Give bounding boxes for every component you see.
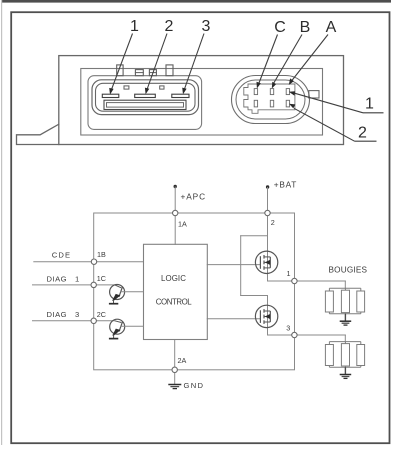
leader to label 2 — [294, 108, 355, 141]
plug resistor R2a — [325, 345, 333, 366]
connector inner wall — [96, 83, 196, 111]
connector shroud — [88, 76, 202, 130]
node 1 — [292, 278, 297, 283]
node 2C — [91, 318, 96, 323]
group2 earth ground — [340, 374, 352, 376]
wire M1 source to node 1 — [268, 280, 295, 282]
MOSFET M1 — [255, 251, 277, 273]
wire node 3 to glow plug group 2 — [294, 334, 345, 336]
wire bypass to M2 drain — [241, 295, 268, 297]
node 2A — [172, 367, 177, 372]
top small tab A — [135, 70, 143, 76]
MOSFET M2 — [255, 305, 277, 327]
svg-text:1: 1 — [365, 96, 374, 113]
svg-text:3: 3 — [202, 18, 211, 35]
transistor Q2 (DIAG 3) — [109, 319, 144, 338]
+BAT supply dot — [266, 185, 269, 188]
wire DIAG3 input through node 2C to transistor Q2 — [33, 320, 115, 322]
schematic text labels — [47, 180, 368, 390]
+APC supply dot — [174, 185, 177, 188]
pin B (top-middle) — [270, 89, 273, 95]
top tall tab left — [117, 65, 123, 76]
wire +BAT to node 2 — [267, 188, 269, 214]
M2 drain stub — [264, 310, 270, 312]
node 1B — [91, 259, 96, 264]
glow plug group 2 (BOUGIES) — [325, 342, 364, 379]
plug resistor R1b — [341, 290, 349, 312]
svg-text:CDE: CDE — [52, 250, 71, 259]
arrowhead 3 — [182, 88, 186, 95]
wire bypass vertical — [240, 236, 242, 296]
svg-text:LOGIC: LOGIC — [161, 274, 186, 283]
M1 drain stub — [264, 256, 270, 258]
group1 ground drop — [344, 314, 346, 321]
leader 3 — [184, 34, 204, 90]
terminal slot 3 — [172, 94, 189, 97]
M2 source stub — [264, 321, 270, 323]
svg-text:B: B — [300, 19, 311, 36]
module left mounting flange — [17, 124, 59, 144]
M1 internal rail — [269, 257, 271, 268]
svg-text:GND: GND — [184, 381, 205, 390]
node 3 — [292, 332, 297, 337]
module body outline — [59, 56, 344, 145]
svg-text:C: C — [274, 19, 286, 36]
svg-text:1: 1 — [75, 275, 79, 284]
svg-text:1A: 1A — [178, 220, 187, 229]
group1 stubs top — [328, 288, 330, 291]
arrowhead A — [289, 78, 294, 85]
svg-text:BOUGIES: BOUGIES — [329, 266, 368, 275]
top dark strip (scan artifact) — [2, 0, 391, 3]
svg-text:2: 2 — [358, 124, 367, 141]
M2 internal rail — [269, 311, 271, 322]
arrowhead 2 — [145, 88, 149, 95]
label 1 underline — [363, 112, 384, 114]
group2 stubs bottom — [328, 366, 330, 368]
M1 channel dashes — [263, 255, 265, 259]
wire DIAG1 input through node 1C to transistor Q1 — [33, 284, 115, 286]
svg-text:DIAG: DIAG — [47, 275, 68, 284]
wire gate of MOSFET M1 — [207, 264, 260, 266]
transistor Q1 (DIAG 1) — [109, 285, 144, 304]
plug resistor R1c — [357, 291, 365, 312]
arrowhead pin right-top — [289, 91, 295, 95]
inner bump left — [124, 86, 129, 89]
svg-text:+BAT: +BAT — [274, 180, 297, 190]
arrowhead B — [272, 82, 276, 89]
wire M2 source to node 3 — [268, 334, 295, 336]
logic control block U1 — [144, 244, 208, 339]
svg-text:+APC: +APC — [181, 192, 207, 202]
left page edge line — [1, 0, 2, 445]
arrowhead pin right-bottom — [289, 104, 295, 109]
plug resistor R2b — [341, 344, 349, 366]
pin bottom-middle — [270, 100, 273, 107]
arrowhead 1 — [109, 88, 113, 95]
top small tab A divider — [135, 72, 143, 74]
svg-text:CONTROL: CONTROL — [156, 298, 192, 307]
leader B — [274, 35, 303, 84]
group1 stubs bottom — [328, 312, 330, 314]
svg-text:2C: 2C — [97, 310, 106, 319]
group2 stubs top — [328, 342, 330, 345]
svg-text:2A: 2A — [178, 356, 187, 365]
svg-text:1: 1 — [130, 18, 139, 35]
svg-text:3: 3 — [75, 310, 79, 319]
leader to label 1 — [295, 93, 364, 113]
svg-text:1B: 1B — [97, 250, 106, 259]
group1 bottom rail — [329, 313, 360, 315]
top tall tab right — [166, 65, 173, 76]
connector outer wall — [92, 80, 199, 115]
svg-text:A: A — [326, 19, 337, 36]
wire feed drop group 2 — [344, 335, 346, 342]
terminal slot 1 — [102, 94, 119, 97]
top small tab B divider — [149, 72, 156, 74]
top small tab B — [149, 70, 156, 76]
wire +APC to node 1A — [174, 187, 176, 213]
M1 body diode arrow — [265, 260, 270, 265]
node 1A — [173, 210, 178, 215]
pin housing outline — [244, 84, 295, 113]
arrowhead C — [257, 82, 261, 89]
plug resistor R2c — [357, 345, 365, 366]
oval connector inner ring — [236, 80, 305, 119]
group1 top rail — [329, 287, 360, 289]
svg-text:1C: 1C — [97, 274, 106, 283]
terminal slot 2 — [135, 94, 156, 97]
svg-text:1: 1 — [287, 269, 291, 278]
wire drain column M1: node 2 to node 1 — [267, 213, 269, 281]
node 1C — [91, 282, 96, 287]
M2 channel dashes — [263, 309, 265, 313]
pin C (top-left) — [254, 89, 257, 95]
wire feed drop group 1 — [344, 281, 346, 288]
module inner panel — [81, 69, 323, 136]
group2 bottom rail — [329, 366, 360, 368]
M1 middle stub — [264, 261, 270, 263]
M1 gate bar — [259, 256, 261, 269]
svg-text:DIAG: DIAG — [47, 310, 68, 319]
svg-text:2: 2 — [165, 18, 174, 35]
M1 source stub — [264, 267, 270, 269]
wide key slot inner — [107, 103, 184, 108]
pin bottom-right — [286, 100, 289, 107]
leader 2 — [147, 34, 167, 90]
wire node 2A to GND — [174, 370, 176, 385]
wire CDE input through node 1B to logic box — [34, 261, 144, 263]
wire logic box bottom to node 2A — [174, 340, 176, 370]
leader 1 — [112, 34, 133, 90]
leader C — [259, 35, 278, 84]
M2 body diode arrow — [265, 314, 270, 319]
svg-text:3: 3 — [286, 324, 290, 333]
svg-text:2: 2 — [271, 218, 275, 227]
leader A — [292, 35, 329, 82]
plug resistor R1a — [325, 291, 333, 312]
group2 ground drop — [344, 367, 346, 374]
wire node 1 to glow plug group 1 — [294, 280, 345, 282]
wire gate of MOSFET M2 — [207, 318, 260, 320]
wire bypass branch top — [241, 235, 268, 237]
GND earth symbol — [168, 385, 181, 389]
group1 earth ground — [340, 320, 352, 322]
schematic boundary rectangle — [94, 213, 295, 370]
node 2 — [265, 210, 270, 215]
inner bump right — [160, 86, 164, 89]
label 2 underline — [355, 140, 377, 142]
M2 middle stub — [264, 316, 270, 318]
pin bottom-left — [254, 100, 257, 107]
oval right key tab — [309, 91, 319, 98]
wire drain column M2: to node 3 — [267, 296, 269, 336]
wide key slot outer — [104, 100, 186, 109]
oval connector outer ring — [232, 76, 310, 124]
pin A (top-right) — [286, 89, 289, 95]
wire node 1A to logic box top — [174, 213, 176, 244]
glow plug group 1 (BOUGIES) — [325, 288, 364, 325]
M2 gate bar — [259, 310, 261, 323]
group2 top rail — [329, 341, 360, 343]
